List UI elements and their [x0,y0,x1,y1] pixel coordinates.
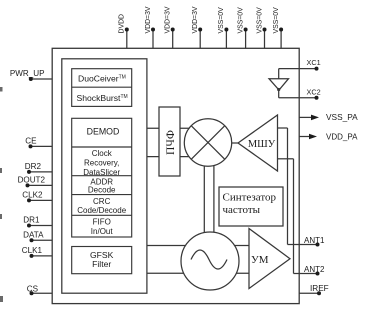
VCO oscillator [181,232,239,290]
LNA MSHU triangle [238,115,278,171]
svg-text:УМ: УМ [251,254,269,266]
svg-text:DR2: DR2 [25,162,42,171]
pin CLK2 [22,191,52,203]
svg-text:Filter: Filter [92,259,111,269]
wire LNA input 2 [278,158,294,160]
svg-text:ANT1: ANT1 [304,236,325,245]
pin XC1 [279,58,321,71]
svg-text:PWR_UP: PWR_UP [10,69,45,78]
svg-text:DEMOD: DEMOD [87,126,120,136]
svg-text:Code/Decode: Code/Decode [77,206,126,215]
svg-text:VSS=0V: VSS=0V [218,7,225,34]
wire ANT2 rail vertical [293,159,295,274]
svg-text:CLK1: CLK1 [22,246,43,255]
svg-text:CS: CS [27,285,39,294]
pin VSS=0V top 1 [218,7,228,48]
pin VDD=3V top 3 [192,6,202,48]
pin VSS=0V top 3 [256,7,266,48]
wire LO-A mixer to VCO [203,162,205,236]
digital block box [62,59,147,293]
svg-text:CE: CE [25,137,37,146]
svg-text:DR1: DR1 [23,216,40,225]
wire VCO-A digital to VCO to PA [147,245,249,247]
svg-text:XC1: XC1 [307,58,321,67]
block GFSK Filter [72,247,132,274]
block DEMOD stack [72,118,132,237]
svg-text:DataSlicer: DataSlicer [83,168,120,177]
svg-text:частоты: частоты [223,204,261,216]
pin DOUT2 [18,176,53,188]
svg-text:In/Out: In/Out [91,227,114,236]
pin CE [25,137,52,149]
svg-text:VSS=0V: VSS=0V [256,7,263,34]
pin XC2 [279,88,321,100]
svg-text:ПЧФ: ПЧФ [165,130,177,155]
svg-text:CRC: CRC [93,197,111,206]
pin VSS=0V top 4 [273,7,283,48]
svg-text:Clock: Clock [92,149,113,158]
svg-text:МШУ: МШУ [248,139,276,150]
pin DVDD top [119,14,129,48]
wire IF-A digital to PCHF to mixer [147,127,190,129]
wire LO-B mixer to VCO [213,162,215,236]
block DuoCeiver/ShockBurst [72,69,132,107]
pin CS [27,285,52,296]
wire IF-B digital to PCHF to mixer [147,156,190,158]
svg-text:VDD_PA: VDD_PA [326,132,358,141]
pin ANT1 [288,236,326,247]
junction dot at inverter apex [277,88,280,91]
block frequency synthesizer [219,187,283,226]
svg-text:VDD=3V: VDD=3V [145,6,152,33]
PA UM triangle [249,229,290,289]
svg-text:VSS_PA: VSS_PA [326,112,358,122]
pin VDD=3V top 2 [165,6,175,48]
svg-text:VSS=0V: VSS=0V [237,7,244,34]
svg-text:Decode: Decode [88,186,116,195]
pin VDD_PA arrow [299,132,358,141]
svg-text:DOUT2: DOUT2 [18,176,46,185]
wire VCO-B digital to VCO to PA [147,272,249,274]
svg-text:CLK2: CLK2 [22,191,43,200]
pin DATA [23,231,52,243]
svg-text:VDD=3V: VDD=3V [192,6,199,33]
wire ANT1 rail vertical [287,128,289,245]
svg-text:VSS=0V: VSS=0V [273,7,280,34]
svg-text:XC2: XC2 [307,88,321,97]
scan speckle artifacts left edge [0,87,3,302]
svg-text:ANT2: ANT2 [304,265,325,274]
pin VSS_PA arrow [299,112,358,122]
svg-text:VDD=3V: VDD=3V [165,6,172,33]
pin PWR_UP [10,69,52,81]
svg-text:ShockBurstTM: ShockBurstTM [77,93,128,103]
svg-text:DATA: DATA [23,231,44,240]
pin VSS=0V top 2 [237,7,247,48]
pin DR1 [23,216,52,228]
block IF filter PCHF [159,107,180,176]
svg-text:Recovery,: Recovery, [84,159,119,168]
wire LNA input 1 [278,127,288,129]
pin IREF [299,284,329,295]
svg-text:DVDD: DVDD [119,14,126,34]
crystal oscillator inverter [269,69,289,98]
chip outer box [52,48,299,303]
svg-text:FIFO: FIFO [93,218,111,227]
mixer [184,119,231,166]
pin VDD=3V top 1 [145,6,155,48]
pin DR2 [25,162,52,174]
wire LNA output to mixer [230,142,239,144]
svg-text:Синтезатор: Синтезатор [223,192,277,204]
pin ANT2 [294,265,326,276]
pin CLK1 [22,246,52,258]
svg-text:IREF: IREF [310,284,329,293]
